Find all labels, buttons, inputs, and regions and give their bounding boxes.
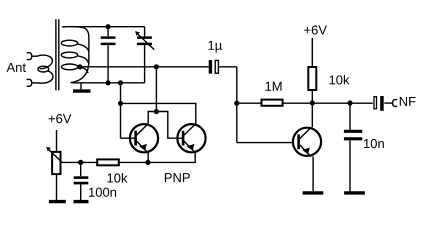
label 1u [208, 41, 221, 53]
inductor L1 primary winding [37, 55, 53, 83]
node tank top / C1 [106, 24, 111, 29]
wire C3 to base node [236, 67, 238, 143]
capacitor C6 output electrolytic [374, 96, 392, 111]
wire cross to T2 collector [121, 103, 196, 124]
node wiper / C4 [78, 160, 83, 165]
ground below pot [49, 200, 66, 203]
wire T1 base lead [121, 137, 137, 139]
label 10k left [107, 173, 127, 183]
node T1 base / cross wire [118, 101, 123, 106]
resistor R4 10k [308, 67, 316, 90]
transistor T1 PNP [130, 124, 158, 153]
ground below C4 [74, 200, 89, 203]
antenna jack bottom terminal [27, 79, 32, 86]
wire detector feed vertical [155, 67, 157, 112]
wire T3 collector lead [311, 103, 313, 127]
wire +6V to pot [56, 130, 58, 151]
ground below C5 [344, 191, 365, 194]
NF jack terminal [393, 100, 398, 107]
node coil tap [77, 64, 82, 69]
node base node [234, 101, 239, 106]
capacitor C3 1u coupling [209, 60, 237, 74]
antenna jack top terminal [27, 53, 32, 60]
node T1 emitter / rail [145, 160, 150, 165]
label 100n [89, 188, 116, 197]
wire R4 to collector node [311, 91, 313, 103]
wire tank top [70, 26, 145, 28]
node rail / C1 [106, 80, 111, 85]
ground below secondary [73, 83, 91, 91]
wire coil tap to coupling cap [80, 66, 209, 68]
label NF [400, 97, 416, 106]
label +6V right [304, 25, 327, 34]
wire base node to collector node [237, 102, 373, 104]
wire antenna top to primary [32, 55, 38, 57]
capacitor C1 top lead [107, 27, 109, 37]
potentiometer R1 [46, 147, 62, 174]
capacitor C1 bottom lead [107, 45, 109, 83]
label PNP [165, 173, 190, 182]
wire T1 emitter lead [147, 153, 149, 163]
wire +6V to R4 [311, 38, 313, 67]
resistor R2 10k [97, 159, 119, 165]
wire pot bottom lead [56, 174, 58, 200]
label 10n [364, 139, 384, 148]
wire tank bottom rail [72, 82, 145, 84]
wire T1 collector jog [148, 112, 156, 124]
node output / C5 [347, 100, 352, 105]
label Ant [7, 63, 26, 72]
label 10k right [329, 75, 349, 85]
node rail / base feed [118, 80, 123, 85]
node detector feed junction [154, 109, 159, 114]
ground below T3 [303, 191, 324, 194]
node tap wire / detector feed [154, 64, 159, 69]
capacitor C2 variable tank cap [135, 27, 154, 83]
inductor L2 secondary winding [61, 27, 89, 83]
wire T1 base feed vertical [120, 83, 122, 138]
capacitor C5 10n [344, 103, 362, 191]
label 1M [265, 82, 281, 91]
transistor T2 PNP [177, 124, 205, 153]
transformer core [56, 19, 59, 90]
resistor R3 1M [262, 100, 283, 106]
capacitor C4 100n [74, 162, 89, 200]
transistor T3 NPN [293, 127, 321, 156]
wire T3 emitter lead [312, 156, 314, 191]
wire emitter rail [61, 161, 148, 163]
wire T2 emitter jog [148, 153, 195, 163]
wire T3 base lead [237, 142, 293, 144]
label +6V left [49, 114, 72, 123]
wire antenna bottom to primary [32, 82, 39, 84]
capacitor C1 fixed tank cap [101, 38, 116, 44]
wire T2 base jog [156, 112, 183, 139]
node collector node [310, 100, 315, 105]
